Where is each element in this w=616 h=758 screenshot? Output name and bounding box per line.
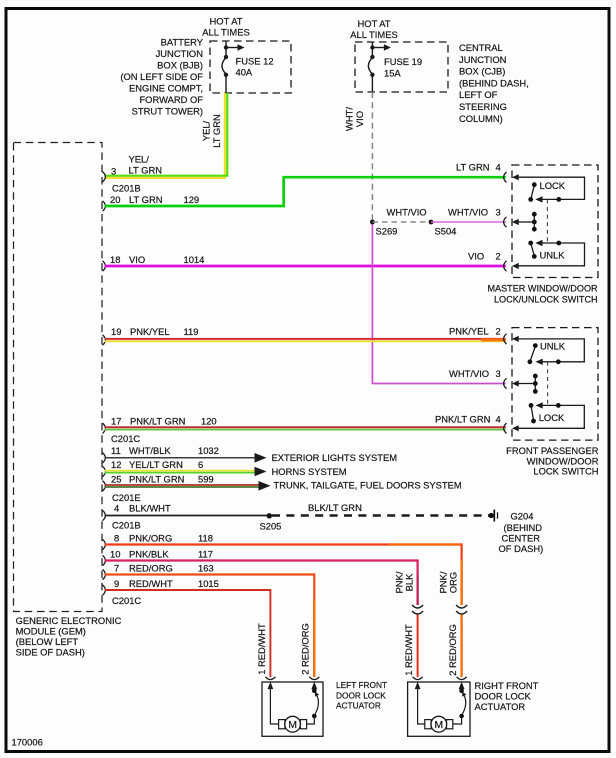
GEM pin 11 connector — [103, 453, 106, 463]
splice S205 — [267, 513, 272, 518]
svg-text:COLUMN): COLUMN) — [459, 113, 503, 124]
master switch pin 3 connector — [504, 217, 519, 227]
svg-text:ALL TIMES: ALL TIMES — [202, 27, 249, 38]
svg-text:PNK/LT GRN: PNK/LT GRN — [130, 416, 185, 427]
svg-text:UNLK: UNLK — [540, 250, 566, 261]
svg-text:FUSE 19: FUSE 19 — [384, 56, 422, 67]
svg-text:ENGINE COMPT,: ENGINE COMPT, — [129, 83, 203, 94]
GEM pin 4 connector — [103, 510, 106, 520]
svg-text:LOCK: LOCK — [539, 412, 565, 423]
GEM pin 8 connector — [103, 539, 106, 549]
svg-text:4: 4 — [496, 162, 501, 173]
svg-text:9: 9 — [114, 578, 119, 589]
wire PNK/BLK pin 10 right and down — [105, 561, 418, 606]
svg-text:RED/ORG: RED/ORG — [129, 563, 173, 574]
svg-text:3: 3 — [496, 368, 501, 379]
svg-text:20: 20 — [110, 194, 120, 205]
svg-text:117: 117 — [198, 549, 213, 560]
svg-text:G204: G204 — [511, 511, 534, 522]
svg-text:LT GRN: LT GRN — [129, 165, 163, 176]
left front door lock actuator box — [262, 682, 323, 736]
svg-text:FUSE 12: FUSE 12 — [236, 56, 274, 67]
svg-text:VIO: VIO — [354, 111, 365, 127]
mechanical linkage (dashed) master — [546, 199, 548, 243]
svg-text:BOX (BJB): BOX (BJB) — [157, 60, 203, 71]
wire PNK/LT GRN pin 17 to front passenger pin 4 — [105, 426, 506, 428]
central junction box label — [459, 42, 529, 124]
master switch LOCK circuit — [519, 177, 585, 199]
mechanical linkage (dashed) front passenger — [547, 362, 549, 406]
GEM module dashed box — [14, 143, 103, 612]
svg-text:M: M — [434, 719, 443, 731]
svg-text:10: 10 — [110, 549, 120, 560]
wire YEL/LT GRN from fuse 12 down to GEM pin 3 — [105, 93, 225, 178]
svg-text:PNK/ORG: PNK/ORG — [129, 533, 172, 544]
left actuator direction arc — [314, 694, 318, 715]
right front door lock actuator box — [408, 682, 470, 736]
svg-text:PNK/LT GRN: PNK/LT GRN — [129, 474, 184, 485]
GEM pin 12 connector — [103, 466, 106, 476]
svg-text:6: 6 — [198, 459, 203, 470]
svg-text:1015: 1015 — [198, 578, 219, 589]
svg-text:VIO: VIO — [468, 251, 484, 262]
svg-text:LOCK/UNLOCK SWITCH: LOCK/UNLOCK SWITCH — [494, 295, 598, 305]
svg-text:STEERING: STEERING — [459, 101, 507, 112]
svg-text:170006: 170006 — [12, 737, 43, 748]
svg-text:LT GRN: LT GRN — [211, 114, 222, 148]
front passenger UNLK circuit — [519, 339, 585, 362]
svg-text:4: 4 — [496, 414, 501, 425]
svg-text:ORG: ORG — [448, 572, 459, 593]
svg-text:STRUT TOWER): STRUT TOWER) — [132, 106, 203, 117]
GEM pin 17 connector — [103, 423, 106, 433]
svg-text:PNK/YEL: PNK/YEL — [449, 326, 489, 337]
svg-text:C201B: C201B — [112, 183, 141, 194]
svg-text:11: 11 — [111, 445, 121, 456]
left actuator pin 1 — [265, 677, 275, 689]
master switch UNLK circuit — [519, 243, 585, 266]
front passenger common contacts (pin 3) — [519, 383, 536, 385]
svg-text:LEFT OF: LEFT OF — [459, 89, 498, 100]
svg-text:(BEHIND DASH,: (BEHIND DASH, — [459, 77, 529, 88]
svg-text:SIDE OF DASH): SIDE OF DASH) — [16, 647, 85, 658]
svg-text:BLK: BLK — [404, 573, 415, 591]
master switch common contacts (pin 3) — [519, 221, 535, 223]
wire PNK/ORG pin 8 right and down — [105, 545, 462, 606]
battery junction box label — [120, 37, 203, 117]
svg-text:129: 129 — [184, 194, 200, 205]
wire BLK/WHT pin 4 to S205 — [105, 515, 268, 517]
svg-text:WHT/VIO: WHT/VIO — [448, 207, 488, 218]
wire LT GRN pin 20 to master switch pin 4 — [105, 177, 506, 206]
svg-text:LOCK: LOCK — [540, 180, 566, 191]
svg-text:3: 3 — [111, 166, 116, 177]
svg-text:119: 119 — [184, 326, 199, 337]
svg-text:TRUNK, TAILGATE, FUEL DOORS SY: TRUNK, TAILGATE, FUEL DOORS SYSTEM — [274, 480, 462, 491]
splice S269 — [370, 220, 375, 225]
wire PNK/YEL pin 19 to front passenger pin 2 — [105, 338, 506, 340]
svg-text:RIGHT FRONT: RIGHT FRONT — [475, 680, 539, 691]
svg-text:25: 25 — [111, 474, 121, 485]
front passenger LOCK circuit — [519, 405, 585, 428]
svg-text:163: 163 — [198, 563, 214, 574]
inline connector on PNK/BLK vertical — [412, 605, 423, 614]
svg-text:1032: 1032 — [198, 445, 219, 456]
svg-text:LT GRN: LT GRN — [129, 194, 163, 205]
svg-text:118: 118 — [198, 533, 213, 544]
GEM caption — [16, 615, 122, 658]
wire RED/ORG below connector to right actuator pin 2 — [460, 615, 462, 678]
wire RED/WHT below connector to right actuator pin 1 — [417, 615, 419, 678]
svg-text:M: M — [288, 719, 297, 731]
svg-text:40A: 40A — [236, 67, 253, 78]
svg-text:JUNCTION: JUNCTION — [459, 54, 506, 65]
master window/door lock/unlock switch dashed box — [512, 165, 598, 278]
svg-text:JUNCTION: JUNCTION — [156, 48, 203, 59]
svg-text:LOCK SWITCH: LOCK SWITCH — [533, 465, 598, 476]
svg-text:599: 599 — [198, 474, 214, 485]
svg-text:15A: 15A — [384, 67, 401, 78]
svg-text:12: 12 — [111, 459, 121, 470]
svg-text:19: 19 — [111, 326, 121, 337]
wire RED/WHT pin 9 right and down to left actuator pin 1 — [105, 590, 271, 677]
svg-text:ALL TIMES: ALL TIMES — [350, 29, 397, 40]
svg-text:YEL/: YEL/ — [201, 120, 212, 141]
svg-text:ACTUATOR: ACTUATOR — [475, 701, 526, 712]
svg-text:3: 3 — [496, 207, 501, 218]
svg-text:RED/WHT: RED/WHT — [129, 578, 173, 589]
wire YEL/LT GRN to horns arrow — [105, 470, 256, 472]
GEM pin 19 connector — [103, 335, 106, 345]
svg-text:WHT/VIO: WHT/VIO — [387, 207, 427, 218]
svg-text:GENERIC ELECTRONIC: GENERIC ELECTRONIC — [16, 615, 122, 626]
svg-text:ACTUATOR: ACTUATOR — [336, 701, 381, 711]
svg-text:18: 18 — [110, 254, 120, 265]
svg-text:PNK/YEL: PNK/YEL — [130, 326, 170, 337]
svg-text:S205: S205 — [260, 521, 282, 532]
wire WHT/VIO dashed from fuse 19 down to S269 — [371, 92, 373, 221]
wire WHT/BLK to exterior lights arrow — [105, 457, 256, 459]
svg-text:(ON LEFT SIDE OF: (ON LEFT SIDE OF — [120, 71, 203, 82]
GEM pin 25 connector — [103, 481, 106, 491]
wire WHT/VIO dashed S269 to S504 — [372, 221, 431, 223]
right actuator pin 1 — [413, 677, 423, 689]
svg-text:CENTER: CENTER — [502, 533, 541, 544]
ground G204 — [489, 513, 494, 518]
svg-text:2: 2 — [496, 326, 501, 337]
svg-text:OF DASH): OF DASH) — [499, 543, 544, 554]
GEM pin 7 connector — [103, 569, 106, 579]
GEM pin 10 connector — [103, 555, 106, 565]
wire WHT/VIO S504 to master switch pin 3 — [431, 221, 506, 223]
right actuator internal wiring — [418, 689, 425, 725]
wire WHT/VIO from S269 down to front passenger pin 3 — [372, 222, 505, 384]
master switch pin 4 connector — [504, 172, 519, 182]
svg-text:HORNS SYSTEM: HORNS SYSTEM — [272, 466, 347, 477]
fuse 12 40A — [222, 41, 239, 93]
left actuator motor M — [285, 716, 301, 732]
left actuator pin 2 — [309, 677, 319, 689]
splice S504 — [429, 220, 434, 225]
svg-text:YEL/LT GRN: YEL/LT GRN — [129, 459, 183, 470]
master switch pin 2 connector — [504, 261, 519, 271]
svg-text:120: 120 — [201, 416, 217, 427]
svg-text:2 RED/ORG: 2 RED/ORG — [300, 623, 311, 675]
wire BLK/LT GRN dashed S205 to G204 — [272, 514, 489, 516]
svg-text:LT GRN: LT GRN — [456, 162, 490, 173]
svg-text:BATTERY: BATTERY — [161, 37, 204, 48]
GEM pin 3 connector — [103, 172, 106, 182]
svg-text:MASTER WINDOW/DOOR: MASTER WINDOW/DOOR — [487, 284, 598, 294]
svg-text:DOOR LOCK: DOOR LOCK — [336, 690, 386, 700]
wire VIO pin 18 to master switch pin 2 — [105, 265, 506, 268]
front passenger pin 3 connector — [504, 378, 519, 388]
front passenger window/door lock switch dashed box — [512, 328, 598, 441]
GEM pin 9 connector — [103, 585, 106, 595]
svg-text:UNLK: UNLK — [540, 340, 566, 351]
wire RED/ORG pin 7 right and down to left actuator pin 2 — [105, 575, 315, 678]
svg-text:C201C: C201C — [111, 433, 140, 444]
svg-text:WHT/BLK: WHT/BLK — [129, 445, 171, 456]
left actuator internal wiring — [270, 689, 278, 725]
svg-text:S269: S269 — [376, 226, 398, 237]
svg-text:VIO: VIO — [129, 254, 145, 265]
svg-text:WHT/: WHT/ — [344, 107, 355, 131]
svg-text:PNK/LT GRN: PNK/LT GRN — [435, 414, 490, 425]
svg-text:LEFT FRONT: LEFT FRONT — [336, 680, 387, 690]
svg-text:1 RED/WHT: 1 RED/WHT — [256, 623, 267, 675]
svg-text:8: 8 — [114, 533, 119, 544]
svg-text:PNK/BLK: PNK/BLK — [129, 549, 169, 560]
fuse 19 15A — [368, 42, 385, 92]
front passenger pin 2 connector — [504, 334, 519, 344]
svg-text:BLK/LT GRN: BLK/LT GRN — [308, 502, 362, 513]
svg-text:1014: 1014 — [184, 254, 205, 265]
front passenger pin 4 connector — [504, 423, 519, 433]
svg-text:MODULE (GEM): MODULE (GEM) — [16, 626, 86, 637]
svg-text:S504: S504 — [435, 226, 457, 237]
svg-text:HOT AT: HOT AT — [358, 18, 391, 29]
svg-text:CENTRAL: CENTRAL — [459, 42, 503, 53]
svg-text:YEL/: YEL/ — [129, 154, 150, 165]
svg-text:BLK/WHT: BLK/WHT — [129, 503, 171, 514]
svg-text:DOOR LOCK: DOOR LOCK — [475, 691, 532, 702]
svg-text:FORWARD OF: FORWARD OF — [139, 94, 203, 105]
right actuator pin 2 — [457, 677, 467, 689]
wire PNK/LT GRN to trunk arrow — [105, 484, 260, 486]
svg-text:7: 7 — [114, 563, 119, 574]
svg-text:C201C: C201C — [112, 595, 141, 606]
right actuator direction arc — [462, 694, 466, 715]
svg-text:HOT AT: HOT AT — [210, 16, 243, 27]
svg-text:WHT/VIO: WHT/VIO — [449, 368, 489, 379]
GEM pin 18 connector — [103, 261, 106, 271]
right actuator motor M — [431, 716, 447, 732]
svg-text:C201B: C201B — [112, 520, 141, 531]
svg-text:(BEHIND: (BEHIND — [504, 522, 543, 533]
svg-text:C201E: C201E — [112, 492, 141, 503]
svg-text:2: 2 — [496, 251, 501, 262]
svg-text:17: 17 — [111, 416, 121, 427]
battery junction box BJB (dashed box) — [210, 41, 291, 93]
GEM pin 20 connector — [103, 201, 106, 211]
svg-text:(BELOW LEFT: (BELOW LEFT — [16, 636, 79, 647]
inline connector on PNK/ORG vertical — [456, 605, 467, 614]
svg-text:4: 4 — [114, 503, 119, 514]
svg-text:EXTERIOR LIGHTS SYSTEM: EXTERIOR LIGHTS SYSTEM — [272, 452, 398, 463]
svg-text:2 RED/ORG: 2 RED/ORG — [447, 624, 458, 676]
svg-text:1 RED/WHT: 1 RED/WHT — [403, 624, 414, 676]
central junction box CJB (dashed box) — [355, 42, 448, 92]
svg-text:BOX (CJB): BOX (CJB) — [459, 66, 505, 77]
